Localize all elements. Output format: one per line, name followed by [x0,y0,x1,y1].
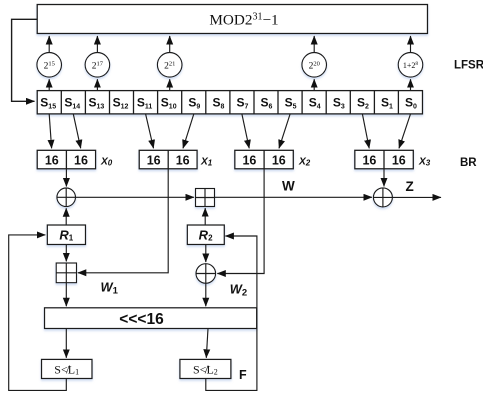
wire rotate to S/L2 [206,329,208,358]
wire X2 drop to xor W2 [217,169,264,274]
box S L2 [180,359,231,378]
wire S0 to X3 low [399,114,411,148]
svg-text:BR: BR [460,157,477,169]
register cell labels [40,96,417,111]
svg-text:16: 16 [45,153,59,167]
wire X0 to xor1 [65,169,67,187]
xor W2 (under R2) [196,264,216,284]
adder W1 (box-plus under R1) [56,263,76,283]
multiplier 1+2^8 [398,36,423,91]
wire X1 drop to adder W1 [78,169,168,273]
wire R2 to adder W [204,208,206,225]
svg-text:Z: Z [406,179,414,194]
wire S2 to X3 high [362,114,369,148]
wire W2 to rotate box [205,283,207,306]
xor2 (W xor X3 = Z) [373,188,392,207]
multiplier 2^21 [157,36,182,91]
wire R2 to xor W2 [205,245,207,263]
wire R1 to adder W1 [65,245,67,262]
box MOD 2^31-1 [37,5,427,34]
BR word X0 [37,150,113,169]
LFSR register row S15..S0 [37,91,422,114]
wire feedback S/L1 to R1 [9,235,67,391]
svg-text:X2: X2 [298,157,311,168]
svg-text:W1: W1 [101,280,119,297]
xor1 (X0 xor R1) [57,188,76,207]
adder W (box-plus under X1) [196,189,215,207]
multiplier 2^15 [37,36,62,91]
svg-text:W2: W2 [230,282,247,299]
svg-text:16: 16 [74,153,88,167]
svg-text:16: 16 [176,153,190,167]
svg-text:W: W [282,179,295,194]
wire feedback S/L2 to R2 [206,236,257,390]
svg-text:MOD231−1: MOD231−1 [209,11,278,29]
multiplier 2^17 [85,36,110,91]
wire R1 to xor1 [65,208,67,225]
wire Z output [392,196,441,198]
svg-text:16: 16 [272,153,286,167]
wire S9 to X1 low [183,114,194,148]
wire S5 to X2 low [279,114,290,148]
svg-text:LFSR: LFSR [454,60,483,72]
BR word X1 [139,150,213,169]
multiplier 2^20 [302,36,327,91]
svg-text:16: 16 [362,153,376,167]
wire S15 to X0 high [49,114,51,148]
wire X3 to xor2 [383,169,385,187]
BR word X3 [355,150,431,169]
wire xor1 to adder W [76,196,195,198]
wire W1 to rotate box [65,283,67,307]
register R2 [187,225,224,245]
wire rotate to S/L1 [65,329,67,358]
wire S11 to X1 high [146,114,154,148]
wire feedback loop (MOD output to S15) [12,19,38,101]
wire W (adder to xor2) [215,196,373,198]
box rotate <<<16 [45,308,257,329]
box S L1 [42,359,93,378]
svg-text:X1: X1 [200,157,213,168]
svg-text:<<<16: <<<16 [119,311,164,328]
svg-text:X0: X0 [100,157,113,168]
register R1 [47,225,85,245]
svg-text:X3: X3 [418,157,431,168]
svg-text:F: F [239,368,247,382]
svg-text:16: 16 [392,153,406,167]
wire S14 to X0 low [73,114,80,148]
svg-text:16: 16 [242,153,256,167]
BR word X2 [235,150,311,169]
wire S7 to X2 high [242,114,249,148]
svg-text:16: 16 [147,153,161,167]
